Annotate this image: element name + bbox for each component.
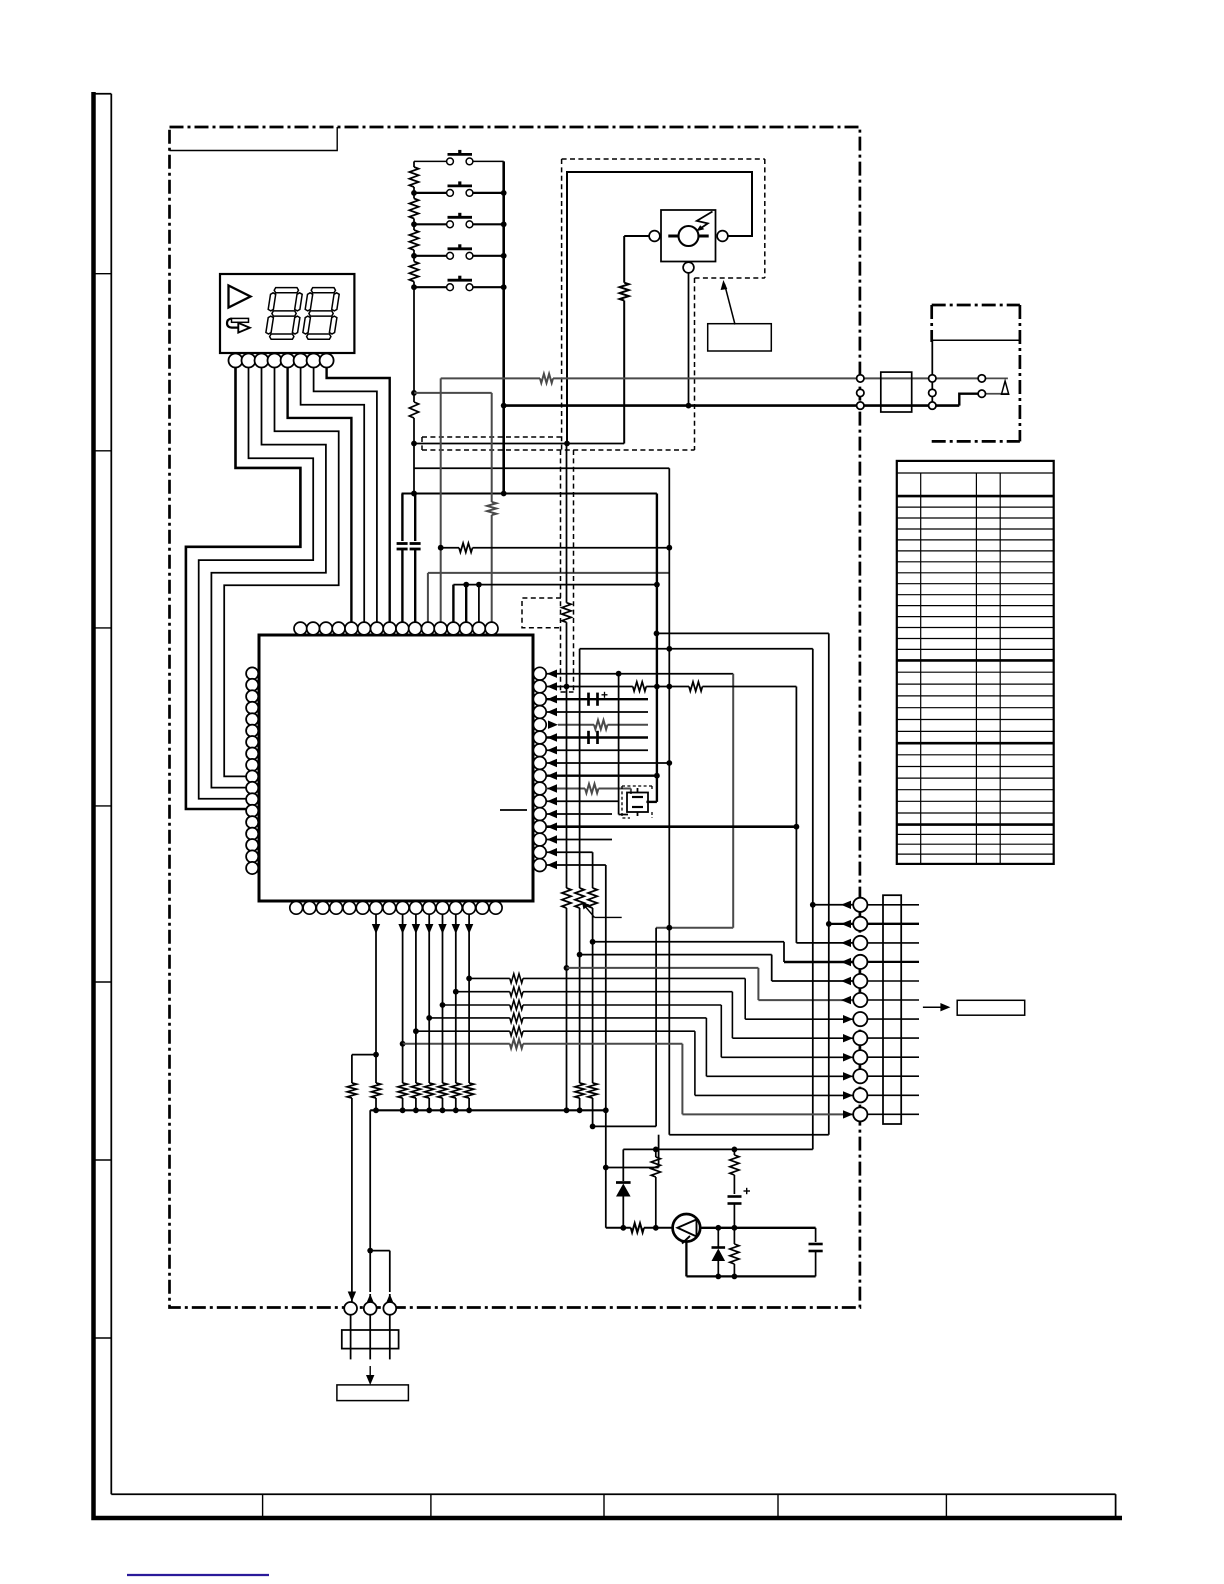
wire r15 to resistor column x=592 (546, 851, 592, 853)
wire bus y=493 (thick corner) (402, 493, 657, 495)
wire x=579 column with resistors R14 R15 (579, 649, 581, 888)
jack switch pins (929, 375, 936, 382)
wire Q1 collector rail thick (700, 1227, 815, 1229)
wire pin7w to branch and resistor R20 (375, 932, 377, 1055)
capacitor C6 (815, 1228, 817, 1242)
motor label box (708, 324, 772, 351)
display 7-segment digit 1 (274, 288, 298, 293)
capacitor C4 on r6 (587, 731, 590, 744)
wire bus y=443 between rail and motor (414, 443, 624, 445)
wire r12 stub (546, 813, 612, 815)
junction dots on rails (411, 390, 417, 396)
bottom connector box (342, 1330, 399, 1349)
thick wire x=656 to resonator (656, 494, 658, 802)
wire motor left with resistor R6 (624, 235, 649, 237)
wire display pin5 to IC top pin (thick) (288, 368, 352, 623)
wire bus y=633 to x=828 (657, 632, 829, 634)
display unit outline (220, 274, 354, 353)
PWB boundary dash-dot outline (170, 127, 860, 1308)
IC U1 microcontroller body (259, 635, 533, 901)
resistor R24 (733, 1228, 735, 1244)
connector label arrow (923, 1006, 946, 1008)
display play icon (229, 286, 251, 308)
boundary pass-through pins (857, 375, 864, 382)
capacitor C3 on r3 (electrolytic) (587, 693, 590, 706)
PWB name label box (170, 127, 338, 151)
motor label arrow (725, 284, 736, 325)
wire display pin7 to IC top pin (314, 368, 377, 623)
IC bottom pin wires with arrows (375, 914, 377, 932)
wire r8 to x=669 (546, 762, 669, 764)
wire r3 thick stub (546, 698, 648, 700)
wire display pin6 to IC top pin (301, 368, 365, 623)
jack internal vertical (931, 340, 933, 405)
wire x=566 column with resistors R12 R13 (566, 444, 568, 603)
wire motor bottom terminal to bus (688, 273, 690, 406)
staircase H2 to connector row5 (580, 954, 772, 956)
gray wire to IC top pin12 from y=378 (440, 378, 442, 622)
wire display pin8 to IC top pin (thick) (327, 368, 390, 623)
motor terminal left (649, 231, 660, 242)
push switch S1 (414, 160, 447, 162)
wire motor loop top (567, 172, 752, 444)
page frame top stub (92, 93, 112, 95)
wire bus y=547 with resistor R9 (441, 547, 459, 549)
IC internal dash (500, 809, 527, 811)
motor M1 box (661, 210, 716, 262)
jack ferrite box (881, 372, 912, 412)
IC top pins (294, 622, 307, 635)
wire row2 stub thick (829, 923, 853, 925)
wire bus y=1149 (623, 1148, 813, 1150)
wire to IC top pin13 (thick) (452, 585, 454, 623)
dashed box ceramic resonator (522, 598, 561, 628)
capacitor C1 (401, 494, 403, 542)
page frame right inner stub (1115, 1494, 1117, 1516)
IC left pins (246, 667, 258, 679)
left rail resistor R5 below matrix (413, 393, 415, 402)
wire display pin1 to IC left pin (thick) (186, 368, 301, 810)
wire bus y=584 (453, 584, 657, 586)
bottom label arrow (369, 1366, 371, 1381)
wire r9 thick to resonator column (546, 775, 657, 777)
gray wire bus y=573 (428, 572, 669, 574)
staircase H1 to connector row4 (thick at end) (593, 941, 784, 943)
transistor Q1 (673, 1214, 701, 1242)
connector table (897, 461, 1054, 864)
wire display pin2 to IC left pin (199, 368, 314, 799)
push switch S5 (414, 286, 447, 288)
push switch S3 (414, 223, 447, 225)
motor terminal right (717, 231, 728, 242)
display 7-segment digit 2 (311, 288, 335, 293)
connector label box (957, 1000, 1024, 1015)
long vertical x=828 (828, 633, 830, 1134)
wire to IC top pin15 (478, 585, 480, 623)
frame tick marks bottom edge (262, 1494, 264, 1517)
wire r16 to transistor base column (546, 864, 606, 866)
dashed line pair below matrix (560, 450, 562, 692)
capacitor C2 (414, 494, 416, 542)
trimmer arrow (595, 916, 622, 918)
connector CN pins on boundary (853, 898, 867, 912)
connector CN body (883, 895, 901, 1124)
jack contact pins (978, 375, 985, 382)
staircase H3 gray to connector row6 (567, 967, 759, 969)
resistor R21 (655, 1149, 657, 1157)
page frame outer thick border (94, 92, 1123, 1518)
ground rail bottom thick (686, 1275, 815, 1277)
wire r6 thick stub (546, 736, 648, 738)
wire r13 thick (546, 825, 796, 828)
footer link line (127, 1574, 269, 1576)
gray wire to IC top pin11 (427, 573, 429, 622)
wire display pin3 to IC left pin (211, 368, 326, 788)
wire row1 stub (813, 904, 853, 906)
wire rail to bottom connector pins 2,3 (369, 1110, 371, 1246)
ground rail y=1110 (370, 1109, 606, 1111)
motor dashed enclosure (562, 158, 765, 160)
wire display pin4 to IC left pin (224, 368, 339, 777)
resistor R22 and electrolytic C5 (733, 1149, 735, 1155)
IC right pins (533, 667, 546, 680)
display repeat icon (232, 318, 249, 322)
wire vertical x=669 from y=468 (668, 468, 670, 927)
frame tick marks left edge (92, 273, 112, 275)
bottom connector pins (344, 1302, 357, 1315)
wire r10 gray with resistor R32 to resonator (546, 788, 585, 790)
wire IC right pin r1 net (gray loop) (546, 673, 733, 675)
connector CN pin stubs east (867, 904, 919, 906)
six key-scan rows with resistors to connector rows 7-12 (402, 932, 404, 1044)
page frame inner left line (110, 94, 112, 1494)
thick wire to IC top pin14 (465, 585, 467, 623)
wire bus y=1167 (606, 1167, 659, 1169)
wire r11 to resonator bottom jog (546, 800, 618, 802)
wire r14 stub (546, 839, 612, 841)
gray wire key rail to IC pin15 with resistor R7 (414, 392, 492, 394)
IC bottom pins (290, 901, 303, 914)
jack plug triangle (1002, 381, 1009, 394)
wire Q1 emitter (685, 1242, 687, 1277)
wire r2 with resistors R30 R31 to connector row3 (546, 686, 633, 688)
push switch S2 (414, 192, 447, 194)
jack inner top line (932, 339, 1020, 341)
gray wire y=378 headphone line with resistor R8 (441, 377, 540, 379)
motor terminal bottom (683, 262, 694, 273)
wire r4 stub (546, 711, 648, 713)
wire bus y=468 to right area (414, 467, 669, 469)
bottom label box (337, 1385, 409, 1401)
wire bus y=648 to x=812 (580, 648, 813, 650)
push switch S4 (414, 255, 447, 257)
jack dash-dot enclosure (932, 304, 1020, 307)
key matrix right rail (thick) (502, 161, 505, 493)
long vertical x=812 (812, 649, 814, 1150)
ceramic resonator X1 (646, 801, 657, 803)
diode D1 (622, 1149, 624, 1181)
wire stubs below bottom connector (350, 1315, 352, 1360)
diode D2 (717, 1228, 719, 1247)
key matrix left rail with resistors R1-R4 (413, 161, 415, 167)
display pins (229, 354, 243, 368)
page frame inner bottom line (111, 1493, 1115, 1495)
motor M1 symbol (679, 226, 699, 246)
wire r5 gray with resistor R11 (548, 721, 558, 729)
transistor Q1 base wire with resistor R23 (606, 1227, 631, 1229)
thick wire y=405 to jack (504, 404, 960, 407)
wire bus y=1134 (669, 1134, 829, 1136)
wire r7 stub (546, 749, 648, 751)
